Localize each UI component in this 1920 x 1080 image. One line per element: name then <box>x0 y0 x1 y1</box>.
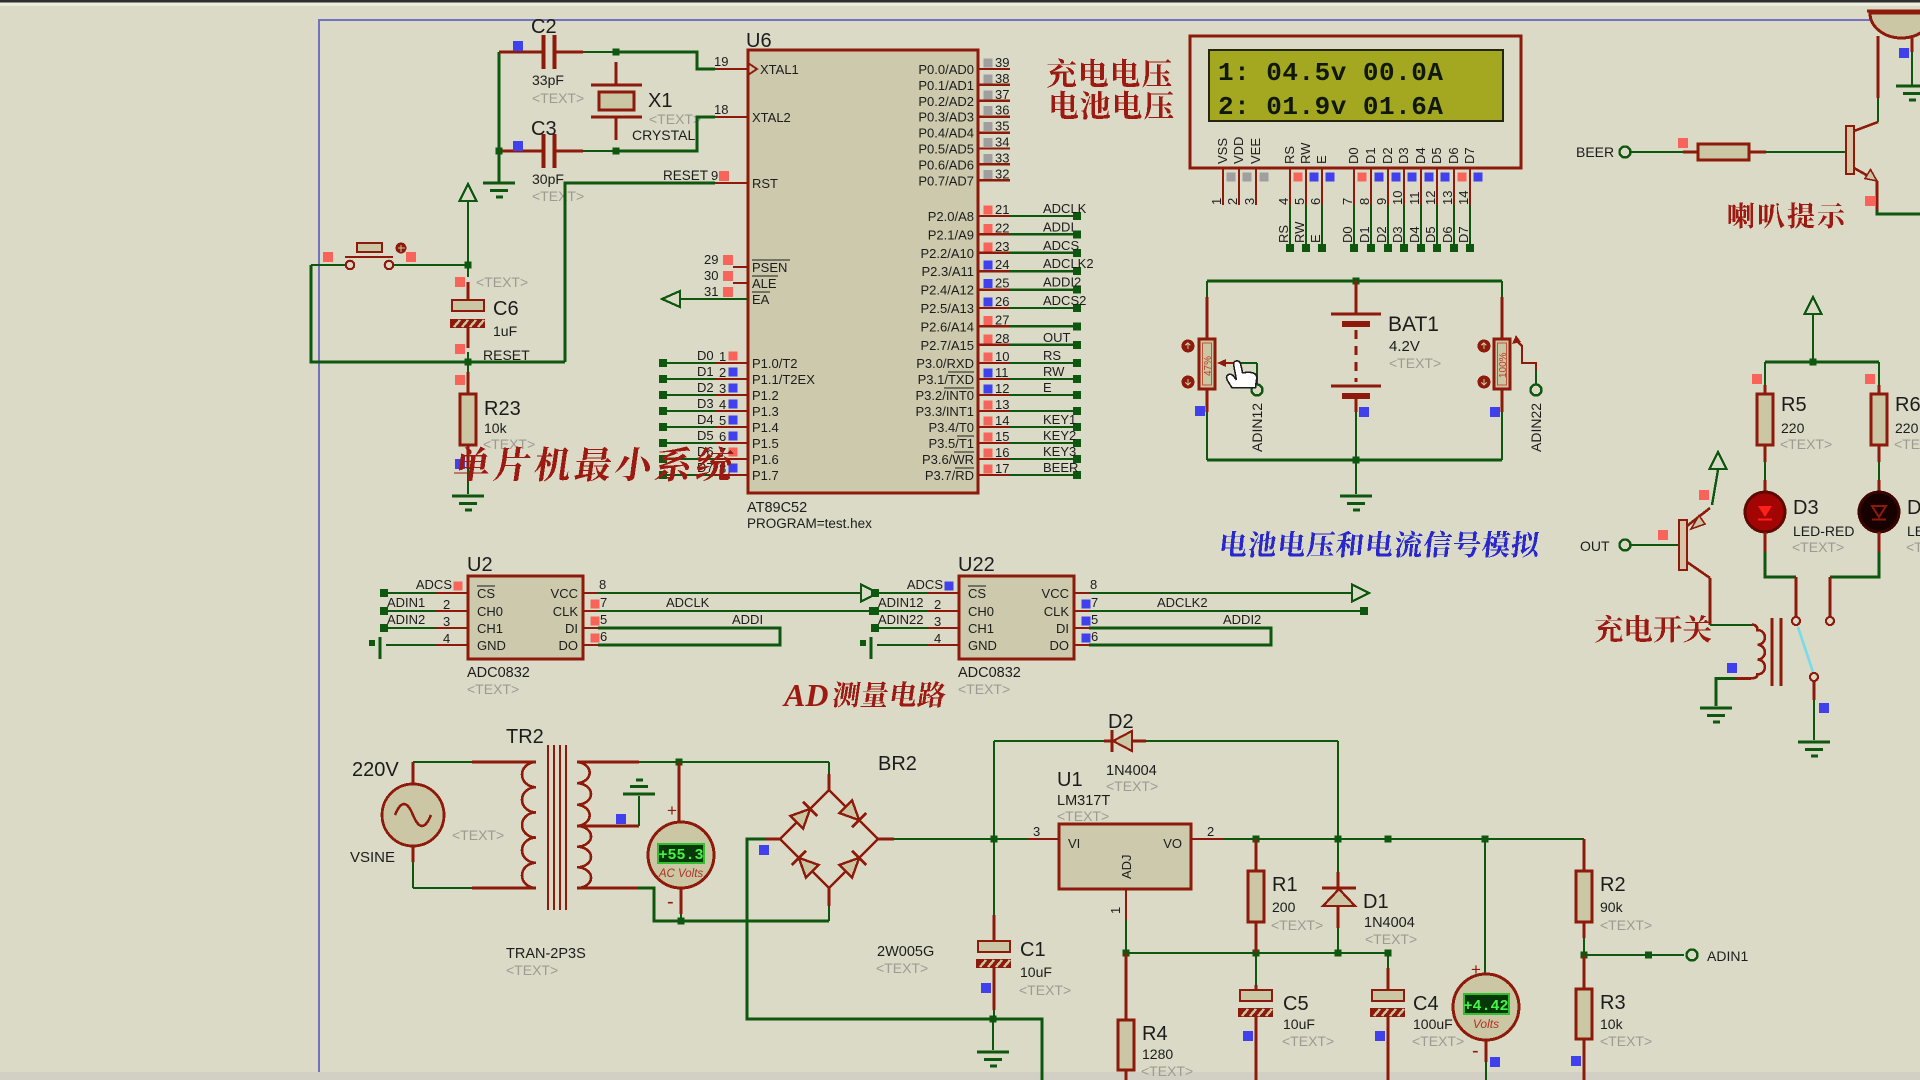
svg-text:17: 17 <box>995 461 1009 476</box>
wire D3 to relay contact <box>1764 532 1767 552</box>
adc U2 pin CS wire ADCS <box>384 592 436 594</box>
svg-text:DI: DI <box>565 621 578 636</box>
wire Q2 emitter to relay coil <box>1709 578 1712 625</box>
pin P1.2 3 wire D2 <box>663 394 715 396</box>
potentiometer RV2 right <box>1501 281 1503 297</box>
node battery top junction <box>1353 278 1360 285</box>
source VSINE 220V <box>382 784 444 846</box>
node X1 top junction <box>613 49 620 56</box>
cursor hand pointer <box>1227 361 1257 388</box>
svg-text:GND: GND <box>477 638 506 653</box>
svg-text:5: 5 <box>600 612 607 627</box>
svg-text:-: - <box>667 891 674 913</box>
svg-text:RS: RS <box>1276 225 1291 243</box>
pin P2.2/A10 23 net wire <box>978 252 1010 254</box>
svg-text:VEE: VEE <box>1248 138 1263 164</box>
svg-text:7: 7 <box>600 595 607 610</box>
pin PSEN 29 <box>733 266 748 268</box>
svg-text:P3.7/RD: P3.7/RD <box>925 468 974 483</box>
svg-text:ADIN2: ADIN2 <box>387 612 425 627</box>
svg-text:P2.5/A13: P2.5/A13 <box>921 301 975 316</box>
svg-text:P0.6/AD6: P0.6/AD6 <box>918 157 974 172</box>
svg-text:2: 2 <box>1207 824 1214 839</box>
wire led rail <box>1765 361 1879 364</box>
svg-text:12: 12 <box>1423 191 1438 205</box>
svg-text:-: - <box>1472 1040 1479 1062</box>
svg-text:1: 1 <box>719 349 726 364</box>
svg-text:ADJ: ADJ <box>1119 854 1134 879</box>
label battery voltage chinese <box>1051 91 1173 120</box>
svg-text:27: 27 <box>995 312 1009 327</box>
adc U22 signal ground <box>869 637 872 659</box>
svg-text:D7: D7 <box>1456 226 1471 243</box>
wire speaker right terminal <box>1911 36 1914 52</box>
svg-text:D7: D7 <box>1462 147 1477 164</box>
svg-text:KEY1: KEY1 <box>1043 412 1076 427</box>
svg-text:CLK: CLK <box>553 604 579 619</box>
svg-text:ADIN1: ADIN1 <box>387 595 425 610</box>
svg-text:1: 1 <box>1209 198 1224 205</box>
svg-text:29: 29 <box>704 252 718 267</box>
svg-text:<TEXT>: <TEXT> <box>1282 1033 1334 1049</box>
svg-text:6: 6 <box>1308 198 1323 205</box>
svg-text:D0: D0 <box>1346 147 1361 164</box>
svg-text:D5: D5 <box>1429 147 1444 164</box>
svg-text:XTAL2: XTAL2 <box>752 110 791 125</box>
adc U22 body <box>959 576 1074 659</box>
wire dc minus to bottom right <box>993 1019 1042 1080</box>
svg-text:VSS: VSS <box>1215 138 1230 164</box>
svg-text:32: 32 <box>995 166 1009 181</box>
svg-text:LE: LE <box>1907 523 1920 539</box>
svg-text:D3: D3 <box>1390 226 1405 243</box>
svg-text:3: 3 <box>443 614 450 629</box>
mcu U6 body <box>748 50 978 493</box>
svg-text:U22: U22 <box>958 554 995 576</box>
svg-text:DO: DO <box>559 638 579 653</box>
svg-text:4.2V: 4.2V <box>1389 338 1420 355</box>
svg-text:2: 2 <box>719 365 726 380</box>
svg-text:P3.1/TXD: P3.1/TXD <box>918 372 974 387</box>
svg-text:220: 220 <box>1781 420 1805 436</box>
svg-text:1N4004: 1N4004 <box>1364 915 1415 931</box>
svg-text:47%: 47% <box>1203 356 1214 376</box>
svg-text:DI: DI <box>1056 621 1069 636</box>
svg-text:ADC0832: ADC0832 <box>467 665 530 681</box>
svg-text:D2: D2 <box>1380 147 1395 164</box>
svg-text:4: 4 <box>934 631 941 646</box>
svg-text:D3: D3 <box>1793 497 1819 519</box>
svg-text:RS: RS <box>1043 348 1061 363</box>
wire bridge bottom <box>828 888 831 906</box>
svg-text:R1: R1 <box>1272 874 1298 896</box>
led D4 dark <box>1859 492 1899 532</box>
svg-text:39: 39 <box>995 55 1009 70</box>
pin P3.2 12 net wire <box>978 394 1010 396</box>
ground crystal <box>483 182 515 185</box>
svg-text:X1: X1 <box>648 90 672 112</box>
capacitor C2 <box>499 51 542 54</box>
wiper RV1 to ADIN12 terminal <box>1217 359 1226 367</box>
adc U2 body <box>468 576 583 659</box>
svg-text:1280: 1280 <box>1142 1046 1173 1062</box>
svg-text:ADIN1: ADIN1 <box>1707 948 1748 964</box>
power arrow led rail <box>1805 297 1822 314</box>
svg-text:AD: AD <box>782 677 828 713</box>
svg-text:3: 3 <box>1033 824 1040 839</box>
svg-text:100uF: 100uF <box>1413 1016 1453 1032</box>
adc U22 pin CH1 wire ADIN22 <box>875 627 927 629</box>
svg-text:P2.1/A9: P2.1/A9 <box>928 227 974 242</box>
pin P0.0/AD0 39 <box>978 68 1010 70</box>
svg-text:C5: C5 <box>1283 993 1309 1015</box>
svg-text:EA: EA <box>752 292 770 307</box>
svg-text:P2.4/A12: P2.4/A12 <box>921 283 975 298</box>
pin P2.7/A15 28 net wire <box>978 344 1010 346</box>
transformer primary coil <box>522 762 536 888</box>
relay core lines <box>1771 618 1774 686</box>
svg-text:<TEXT>: <TEXT> <box>532 188 584 204</box>
svg-text:BEER: BEER <box>1043 460 1078 475</box>
resistor R5 220 <box>1764 362 1766 385</box>
svg-text:P2.3/A11: P2.3/A11 <box>921 264 974 279</box>
svg-text:R5: R5 <box>1781 394 1807 416</box>
node C3 left junction <box>496 148 503 155</box>
svg-text:12: 12 <box>995 381 1009 396</box>
svg-text:VCC: VCC <box>1042 586 1069 601</box>
pin EA 31 <box>680 298 748 300</box>
led D3 red <box>1745 492 1785 532</box>
svg-text:14: 14 <box>995 413 1009 428</box>
svg-text:D1: D1 <box>1363 891 1389 913</box>
svg-text:P0.3/AD3: P0.3/AD3 <box>918 110 974 125</box>
svg-text:38: 38 <box>995 71 1009 86</box>
svg-text:90k: 90k <box>1600 899 1624 915</box>
svg-text:11: 11 <box>1407 192 1422 206</box>
wire XTAL1 net <box>616 52 715 69</box>
svg-text:26: 26 <box>995 294 1009 309</box>
wire button left loop <box>311 265 565 362</box>
svg-text:10uF: 10uF <box>1020 964 1052 980</box>
svg-text:6: 6 <box>600 629 607 644</box>
svg-text:34: 34 <box>995 135 1009 150</box>
svg-text:ADIN22: ADIN22 <box>878 612 924 627</box>
svg-text:D2: D2 <box>1108 711 1134 733</box>
wire D2 down to VO rail <box>1337 741 1339 839</box>
svg-text:200: 200 <box>1272 899 1296 915</box>
svg-text:<TEXT>: <TEXT> <box>452 827 504 843</box>
relay contact left <box>1792 617 1800 625</box>
svg-text:ADCLK: ADCLK <box>1043 201 1087 216</box>
svg-text:P0.1/AD1: P0.1/AD1 <box>918 78 974 93</box>
svg-text:+55.3: +55.3 <box>658 847 703 864</box>
node ADIN1 junction <box>1581 952 1588 959</box>
svg-text:31: 31 <box>704 284 718 299</box>
svg-text:KEY3: KEY3 <box>1043 444 1076 459</box>
adc U2 pin GND wire <box>386 644 436 646</box>
node VO rail junctions <box>1253 836 1260 843</box>
relay contact right <box>1826 617 1834 625</box>
wire battery bottom rail <box>1207 459 1502 462</box>
power arrow reset pull-up <box>460 184 477 201</box>
svg-text:8: 8 <box>1090 577 1097 592</box>
resistor R3 10k <box>1583 955 1586 989</box>
svg-text:ADIN12: ADIN12 <box>878 595 924 610</box>
pin P2.6/A14 27 net wire <box>978 325 1010 327</box>
svg-text:<TEXT>: <TEXT> <box>532 90 584 106</box>
svg-text:P2.6/A14: P2.6/A14 <box>921 319 975 334</box>
node secondary top junction <box>676 759 683 766</box>
svg-text:VDD: VDD <box>1231 137 1246 164</box>
adc U22 pin DI DO loop ADDI2 <box>1074 627 1089 629</box>
svg-text:<TEXT>: <TEXT> <box>1019 982 1071 998</box>
resistor R23 10k <box>467 362 469 372</box>
ground relay coil <box>1700 707 1732 710</box>
svg-text:D6: D6 <box>1440 226 1455 243</box>
svg-text:OUT: OUT <box>1580 538 1610 554</box>
svg-text:P1.3: P1.3 <box>752 404 779 419</box>
adc U2 pin DI DO loop ADDI <box>583 627 598 629</box>
svg-text:GND: GND <box>968 638 997 653</box>
adc U2 pin CLK wire ADCLK <box>583 610 598 612</box>
svg-text:VI: VI <box>1068 836 1080 851</box>
speaker LS1 <box>1867 10 1920 13</box>
svg-text:1N4004: 1N4004 <box>1106 763 1157 779</box>
svg-text:TR2: TR2 <box>506 726 544 748</box>
voltmeter AC <box>678 762 681 823</box>
svg-text:ADDI: ADDI <box>732 612 763 627</box>
adc U2 pin CH1 wire ADIN2 <box>384 627 436 629</box>
svg-text:P1.5: P1.5 <box>752 436 779 451</box>
svg-text:<TEXT>: <TEXT> <box>1792 539 1844 555</box>
svg-text:P1.0/T2: P1.0/T2 <box>752 356 798 371</box>
svg-text:D3: D3 <box>697 396 714 411</box>
svg-text:ADCLK: ADCLK <box>666 595 710 610</box>
pin P0.6/AD6 33 <box>978 163 1010 165</box>
svg-text:7: 7 <box>1091 595 1098 610</box>
capacitor C4 100uF <box>1387 953 1389 968</box>
svg-text:P1.2: P1.2 <box>752 388 779 403</box>
pin P3.3 13 net wire <box>978 410 1010 412</box>
svg-text:1uF: 1uF <box>493 323 517 339</box>
svg-text:D5: D5 <box>697 428 714 443</box>
svg-text:<TEXT>: <TEXT> <box>1106 778 1158 794</box>
svg-text:R23: R23 <box>484 398 521 420</box>
svg-text:4: 4 <box>1276 198 1291 205</box>
svg-text:CS: CS <box>968 586 986 601</box>
svg-text:CH0: CH0 <box>968 604 994 619</box>
relay coil RL1 <box>1736 625 1765 679</box>
svg-text:ADCS2: ADCS2 <box>1043 293 1086 308</box>
svg-text:CLK: CLK <box>1044 604 1070 619</box>
label speaker hint chinese <box>1729 202 1844 228</box>
svg-text:U2: U2 <box>467 554 493 576</box>
svg-text:2W005G: 2W005G <box>877 944 934 960</box>
svg-text:+: + <box>667 801 677 820</box>
svg-text:9: 9 <box>1374 198 1389 205</box>
lcd LCD1 body <box>1190 36 1521 168</box>
svg-text:P2.0/A8: P2.0/A8 <box>928 209 974 224</box>
node dc minus junction <box>990 1016 997 1023</box>
svg-text:10: 10 <box>995 349 1009 364</box>
svg-text:P3.2/INT0: P3.2/INT0 <box>915 388 974 403</box>
svg-text:16: 16 <box>995 445 1009 460</box>
label battery signal simulation chinese <box>1221 531 1540 558</box>
svg-text:P2.2/A10: P2.2/A10 <box>921 246 975 261</box>
svg-text:ADCS: ADCS <box>416 577 452 592</box>
pin XTAL1 19 <box>715 68 748 70</box>
svg-text:10k: 10k <box>1600 1016 1624 1032</box>
svg-text:D1: D1 <box>1363 147 1378 164</box>
svg-text:19: 19 <box>714 54 728 69</box>
svg-text:P3.0/RXD: P3.0/RXD <box>916 356 974 371</box>
svg-text:30: 30 <box>704 268 718 283</box>
svg-text:25: 25 <box>995 276 1009 291</box>
svg-text:23: 23 <box>995 239 1009 254</box>
relay moving contact cyan <box>1798 627 1813 672</box>
svg-text:OUT: OUT <box>1043 330 1071 345</box>
svg-text:U1: U1 <box>1057 769 1083 791</box>
svg-text:15: 15 <box>995 429 1009 444</box>
svg-text:33pF: 33pF <box>532 72 564 88</box>
svg-text:6: 6 <box>1091 629 1098 644</box>
svg-text:<TEXT>: <TEXT> <box>1600 917 1652 933</box>
pin P0.7/AD7 32 <box>978 179 1010 181</box>
svg-text:LM317T: LM317T <box>1057 793 1110 809</box>
svg-text:C3: C3 <box>531 118 557 140</box>
adc U2 signal ground <box>378 637 381 659</box>
svg-text:2: 2 <box>443 597 450 612</box>
svg-text:E: E <box>1043 380 1052 395</box>
svg-text:ADDI2: ADDI2 <box>1043 275 1081 290</box>
pin P1.1 2 wire D1 <box>663 378 715 380</box>
svg-text:33: 33 <box>995 150 1009 165</box>
svg-text:P1.1/T2EX: P1.1/T2EX <box>752 372 815 387</box>
svg-text:<TEXT>: <TEXT> <box>1365 931 1417 947</box>
svg-text:ADCLK2: ADCLK2 <box>1157 595 1208 610</box>
svg-text:U6: U6 <box>746 30 772 52</box>
svg-text:RS: RS <box>1282 146 1297 164</box>
svg-text:+4.42: +4.42 <box>1463 998 1508 1015</box>
svg-text:KEY2: KEY2 <box>1043 428 1076 443</box>
wire button right to C6 node <box>393 264 468 266</box>
wire bridge left to dc minus <box>766 838 780 841</box>
pin P0.4/AD4 35 <box>978 131 1010 133</box>
wire VO rail <box>1223 838 1584 840</box>
svg-text:BEER: BEER <box>1576 144 1614 160</box>
svg-text:10uF: 10uF <box>1283 1016 1315 1032</box>
svg-text:P0.2/AD2: P0.2/AD2 <box>918 94 974 109</box>
adc U2 pin CH0 wire ADIN1 <box>384 610 436 612</box>
wire coil to ground <box>1716 679 1736 707</box>
pin P0.5/AD5 34 <box>978 147 1010 149</box>
svg-text:R2: R2 <box>1600 874 1626 896</box>
svg-text:P3.4/T0: P3.4/T0 <box>928 420 974 435</box>
pin P2.0/A8 21 net wire <box>978 215 1010 217</box>
svg-text:P3.3/INT1: P3.3/INT1 <box>915 404 974 419</box>
svg-text:RW: RW <box>1298 142 1313 164</box>
pin U1 ADJ 1 <box>1125 889 1127 920</box>
svg-text:ADDI: ADDI <box>1043 219 1074 234</box>
label minimal system chinese <box>453 446 735 481</box>
svg-text:RESET: RESET <box>483 347 530 363</box>
node X1 bottom junction <box>613 148 620 155</box>
svg-text:9: 9 <box>711 168 718 183</box>
svg-text:<TEXT>: <TEXT> <box>483 436 535 452</box>
svg-text:VCC: VCC <box>551 586 578 601</box>
wire secondary tap to ground <box>577 825 639 828</box>
svg-text:10: 10 <box>1390 191 1405 205</box>
svg-text:<TEXT>: <TEXT> <box>1389 355 1441 371</box>
svg-text:VO: VO <box>1163 836 1182 851</box>
svg-text:220V: 220V <box>352 759 399 781</box>
svg-text:2: 2 <box>934 597 941 612</box>
wire C2 left vertical to ground <box>498 52 501 182</box>
pin P3.7 17 net wire <box>978 474 1010 476</box>
svg-text:5: 5 <box>1292 198 1307 205</box>
svg-text:D4: D4 <box>1413 147 1428 164</box>
svg-text:D2: D2 <box>1374 226 1389 243</box>
svg-text:14: 14 <box>1456 191 1471 205</box>
pin U1 VI 3 <box>1027 838 1059 840</box>
svg-text:P1.4: P1.4 <box>752 420 779 435</box>
svg-text:D6: D6 <box>1446 147 1461 164</box>
svg-text:C1: C1 <box>1020 939 1046 961</box>
label charge switch chinese <box>1595 615 1711 643</box>
svg-text:4: 4 <box>719 397 726 412</box>
svg-text:8: 8 <box>1357 198 1372 205</box>
svg-text:13: 13 <box>995 397 1009 412</box>
svg-text:P3.6/WR: P3.6/WR <box>922 452 974 467</box>
svg-text:VSINE: VSINE <box>350 849 395 866</box>
svg-text:5: 5 <box>719 413 726 428</box>
svg-text:DO: DO <box>1050 638 1070 653</box>
svg-text:E: E <box>1308 234 1323 243</box>
svg-text:CH1: CH1 <box>477 621 503 636</box>
ground relay pole <box>1798 741 1830 744</box>
svg-text:D0: D0 <box>1340 226 1355 243</box>
svg-text:C6: C6 <box>493 298 519 320</box>
wire ADJ rail <box>1126 952 1388 954</box>
svg-text:CRYSTAL: CRYSTAL <box>632 127 695 143</box>
svg-text:BAT1: BAT1 <box>1388 313 1439 336</box>
wiper RV2 to ADIN22 terminal <box>1512 335 1521 344</box>
svg-text:8: 8 <box>599 577 606 592</box>
svg-text:ADCS: ADCS <box>907 577 943 592</box>
svg-text:AC Volts: AC Volts <box>658 868 704 880</box>
capacitor C1 10uF <box>993 839 995 915</box>
bridge diode top-right <box>839 800 867 828</box>
svg-text:11: 11 <box>995 365 1009 380</box>
svg-text:36: 36 <box>995 103 1009 118</box>
svg-text:PROGRAM=test.hex: PROGRAM=test.hex <box>747 516 872 531</box>
svg-text:21: 21 <box>995 202 1009 217</box>
resistor BEER base <box>1631 151 1683 153</box>
resistor R4 1280 <box>1125 953 1128 1020</box>
transformer secondary coil <box>577 762 591 826</box>
lcd screen <box>1209 50 1503 121</box>
svg-text:<TEXT>: <TEXT> <box>1057 808 1109 824</box>
pin P3.1 11 net wire <box>978 378 1010 380</box>
label charge voltage chinese <box>1047 59 1172 88</box>
wire relay pole to ground <box>1813 681 1816 700</box>
pin ALE 30 <box>733 282 748 284</box>
svg-text:<TEXT>: <TEXT> <box>467 681 519 697</box>
svg-text:PSEN: PSEN <box>752 260 787 275</box>
pin P2.4/A12 25 net wire <box>978 288 1010 290</box>
svg-text:24: 24 <box>995 257 1009 272</box>
svg-text:<TEXT>: <TEXT> <box>1141 1063 1193 1079</box>
